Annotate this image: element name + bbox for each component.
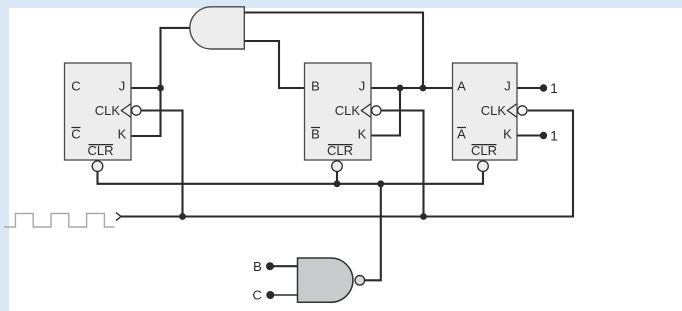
wire: J of flip-flop A to logic 1: [517, 87, 544, 89]
svg-text:C: C: [253, 288, 262, 303]
terminal: K=1 of flip-flop A: [540, 132, 547, 139]
node: junction at AND input branch: [420, 85, 427, 92]
node: CLR bus junction at flip-flop B: [334, 180, 341, 187]
svg-text:CLR: CLR: [327, 143, 353, 158]
wire: output A of flip-flop A to J of flip-flop B: [371, 87, 453, 89]
svg-text:J: J: [119, 79, 126, 94]
svg-text:CLK: CLK: [95, 103, 121, 118]
wire: NAND input B stub: [273, 265, 298, 267]
wire: CLK branch to flip-flop C: [141, 111, 182, 217]
wire: NAND output to CLR bus: [365, 184, 381, 280]
wire: clock bus from source to CLK of flip-flop A: [121, 111, 573, 217]
wire: branch to K of flip-flop B: [371, 88, 400, 136]
wire: J input stub of flip-flop C: [132, 87, 161, 89]
svg-text:A: A: [457, 79, 466, 94]
node: clock junction at flip-flop C branch: [179, 213, 186, 220]
wire: CLK branch to flip-flop B: [381, 111, 424, 217]
svg-text:A: A: [457, 127, 466, 142]
wire: AND input from output A (top): [244, 13, 423, 89]
svg-text:C: C: [71, 127, 80, 142]
wire: NAND input C stub: [273, 294, 297, 296]
svg-text:CLR: CLR: [87, 143, 113, 158]
svg-text:CLR: CLR: [471, 143, 497, 158]
node: clock junction at flip-flop B branch: [420, 213, 427, 220]
NAND output bubble: [355, 276, 365, 286]
wire: CLR bus linking CLR pins of C, B, A: [98, 171, 484, 184]
svg-text:C: C: [71, 79, 80, 94]
svg-text:CLK: CLK: [335, 103, 361, 118]
svg-text:K: K: [358, 127, 367, 142]
flip-flop B: [305, 63, 381, 172]
NAND gate G2 (inputs B and C, output to CLR bus): [298, 258, 353, 302]
clock source arrow: [116, 213, 121, 221]
svg-text:K: K: [503, 127, 512, 142]
flip-flop C: [65, 63, 142, 172]
svg-text:B: B: [311, 79, 320, 94]
svg-text:B: B: [311, 127, 320, 142]
wire: AND input from output B (bottom): [244, 41, 304, 88]
flip-flop A: [453, 63, 528, 172]
node: CLR bus junction at NAND output: [377, 180, 384, 187]
node: junction at J of flip-flop C: [157, 85, 164, 92]
terminal: J=1 of flip-flop A: [540, 84, 547, 91]
svg-text:1: 1: [550, 127, 558, 143]
svg-text:K: K: [118, 127, 127, 142]
node: junction at K branch: [397, 85, 404, 92]
wire: CLR drop from flip-flop B bubble: [336, 171, 338, 184]
AND gate G1 (inputs A and B, output to J/K of C): [190, 7, 244, 49]
terminal: NAND input B: [266, 262, 274, 270]
svg-text:B: B: [253, 259, 262, 274]
clock source waveform: [4, 214, 115, 228]
wire: K of flip-flop A to logic 1: [517, 134, 544, 136]
wire: AND output to J and K of flip-flop C: [132, 28, 190, 136]
svg-text:J: J: [359, 79, 366, 94]
svg-text:1: 1: [550, 80, 558, 96]
terminal: NAND input C: [266, 291, 274, 299]
svg-text:J: J: [504, 79, 511, 94]
svg-text:CLK: CLK: [481, 103, 507, 118]
